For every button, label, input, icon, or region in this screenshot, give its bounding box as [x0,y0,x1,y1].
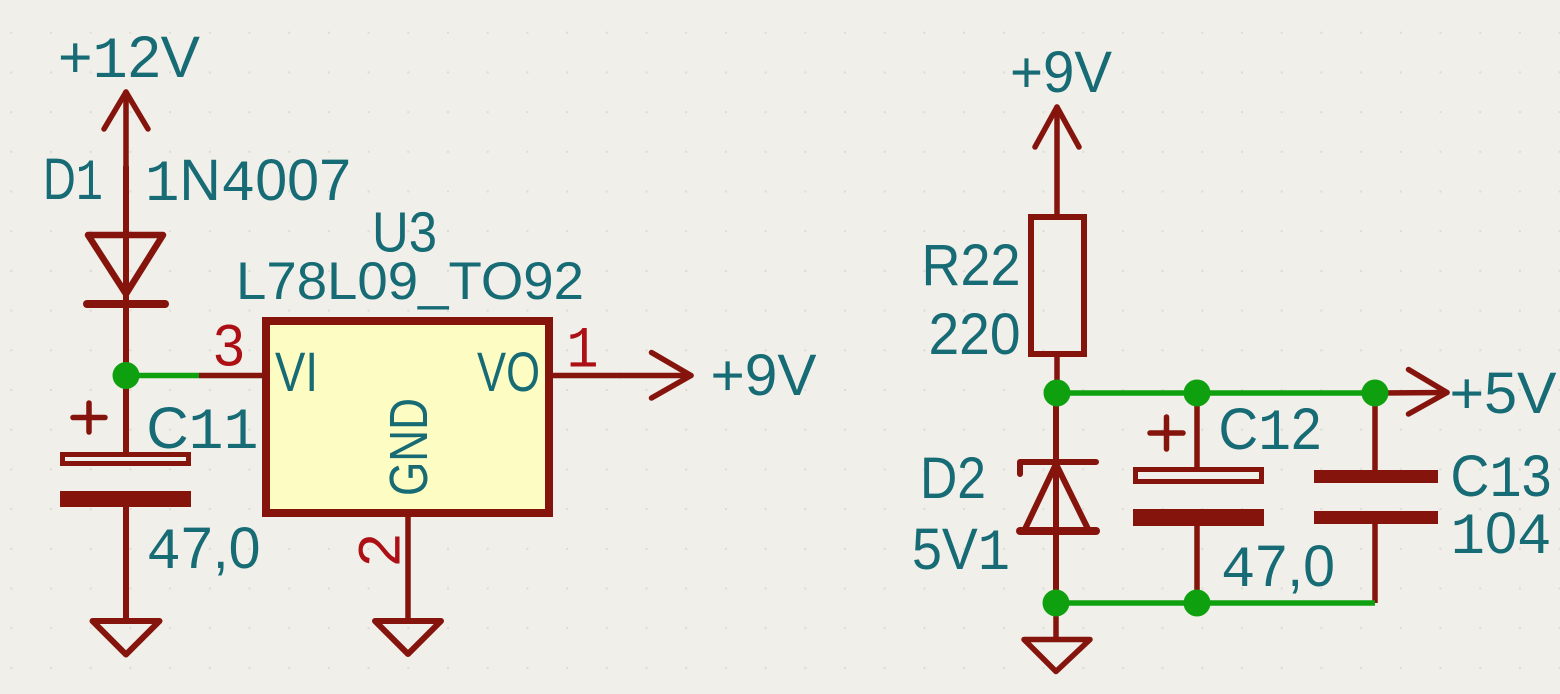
pin 2 of U3 [405,513,411,621]
svg-text:47,0: 47,0 [147,516,261,586]
power symbol +9V (right) arrow [1035,107,1079,217]
junction node at D1/C11/U3 [113,362,140,389]
capacitor C12 plus mark [1150,417,1183,449]
svg-text:1: 1 [567,320,599,385]
pin 1 of U3 [549,373,620,379]
svg-text:+9V: +9V [1010,40,1112,105]
power symbol +5V arrow [1375,370,1447,415]
svg-text:220: 220 [929,302,1021,367]
wire top rail to +5V [1057,390,1375,396]
junction D2 bottom [1043,590,1070,617]
svg-text:GND: GND [379,398,439,496]
capacitor C11 [60,376,191,622]
zener diode D2 [1020,393,1096,603]
svg-text:VO: VO [477,340,540,403]
pin 3 of U3 [199,373,266,379]
power symbol +9V (output) arrow [620,353,691,399]
svg-text:L78L09_TO92: L78L09_TO92 [236,252,584,311]
regulator U3 body [266,321,549,513]
resistor R22 [1031,217,1084,393]
capacitor C12 [1133,393,1264,603]
svg-text:1N4007: 1N4007 [145,148,351,218]
capacitor C13 [1314,393,1438,603]
ground under U3 [375,621,441,654]
wire junction to U3 pin 3 [126,373,199,379]
svg-text:5V1: 5V1 [912,517,1010,587]
svg-text:R22: R22 [922,233,1021,298]
ground under C11 [93,621,160,655]
ground under D2 [1024,640,1090,672]
junction C12 bottom [1184,590,1211,617]
svg-text:104: 104 [1451,501,1552,571]
capacitor C11 plus mark [73,403,105,432]
svg-text:C12: C12 [1219,397,1322,467]
diode D1 [87,166,165,375]
power symbol +12V arrow [104,92,148,166]
svg-text:D1: D1 [43,147,103,217]
junction C13 top [1362,380,1389,407]
svg-text:3: 3 [214,314,245,379]
svg-text:2: 2 [348,534,413,567]
svg-text:D2: D2 [920,446,986,511]
svg-text:VI: VI [275,340,318,403]
wire bottom rail [1056,600,1375,606]
svg-text:+9V: +9V [711,343,817,408]
junction R22/D2 top [1044,380,1071,407]
svg-text:47,0: 47,0 [1221,534,1335,604]
junction C12 top [1184,380,1211,407]
svg-text:+12V: +12V [58,25,200,95]
svg-text:+5V: +5V [1450,361,1557,426]
wire D2 to ground [1053,603,1059,637]
